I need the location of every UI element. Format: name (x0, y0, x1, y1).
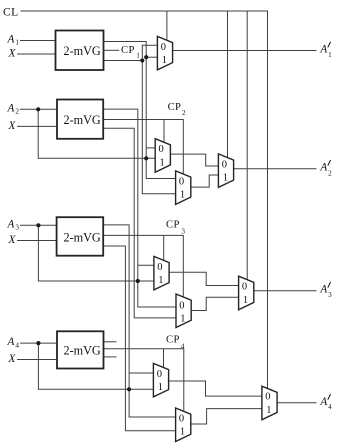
svg-text:1: 1 (158, 275, 163, 286)
svg-text:1: 1 (162, 55, 167, 66)
svg-text:0: 0 (179, 413, 184, 424)
svg-text:1: 1 (180, 427, 185, 438)
svg-text:X: X (8, 120, 17, 132)
svg-text:2-mVG: 2-mVG (64, 113, 101, 127)
svg-text:3: 3 (181, 228, 185, 236)
svg-text:0: 0 (242, 282, 247, 293)
svg-text:CL: CL (3, 6, 19, 18)
svg-text:1: 1 (158, 382, 163, 393)
svg-text:2: 2 (182, 109, 186, 117)
svg-text:A: A (7, 102, 15, 114)
svg-text:A: A (7, 336, 15, 348)
svg-text:1: 1 (180, 190, 185, 201)
svg-text:CP: CP (168, 102, 182, 113)
svg-text:2-mVG: 2-mVG (64, 230, 101, 244)
svg-text:1: 1 (180, 314, 185, 325)
svg-text:A: A (7, 218, 15, 230)
svg-text:X: X (8, 47, 17, 59)
svg-text:1: 1 (15, 39, 19, 47)
svg-text:1: 1 (136, 52, 140, 60)
svg-text:4: 4 (181, 342, 185, 350)
svg-text:CP: CP (166, 335, 180, 346)
svg-text:1: 1 (160, 157, 165, 168)
svg-text:CP: CP (121, 45, 135, 56)
svg-text:0: 0 (222, 159, 227, 170)
svg-text:A: A (319, 396, 327, 408)
svg-text:CP: CP (166, 219, 180, 230)
svg-text:0: 0 (265, 392, 270, 403)
svg-text:X: X (8, 234, 17, 246)
svg-text:4: 4 (328, 403, 332, 411)
svg-text:2-mVG: 2-mVG (64, 344, 101, 358)
svg-text:1: 1 (223, 173, 228, 184)
svg-text:0: 0 (159, 144, 164, 155)
svg-text:4: 4 (15, 341, 19, 349)
svg-text:1: 1 (328, 51, 332, 59)
svg-text:A: A (319, 284, 327, 296)
svg-text:3: 3 (15, 224, 19, 232)
svg-text:0: 0 (157, 262, 162, 273)
svg-text:X: X (8, 353, 17, 365)
svg-text:1: 1 (243, 295, 248, 306)
svg-text:2: 2 (328, 169, 332, 177)
svg-text:3: 3 (328, 291, 332, 299)
svg-text:0: 0 (157, 369, 162, 380)
svg-text:0: 0 (179, 176, 184, 187)
svg-text:1: 1 (266, 405, 271, 416)
svg-text:2-mVG: 2-mVG (64, 44, 101, 58)
svg-text:2: 2 (15, 108, 19, 116)
svg-text:0: 0 (179, 301, 184, 312)
svg-text:0: 0 (161, 42, 166, 53)
svg-text:A: A (7, 34, 15, 46)
svg-text:A: A (319, 162, 327, 174)
svg-text:A: A (319, 44, 327, 56)
